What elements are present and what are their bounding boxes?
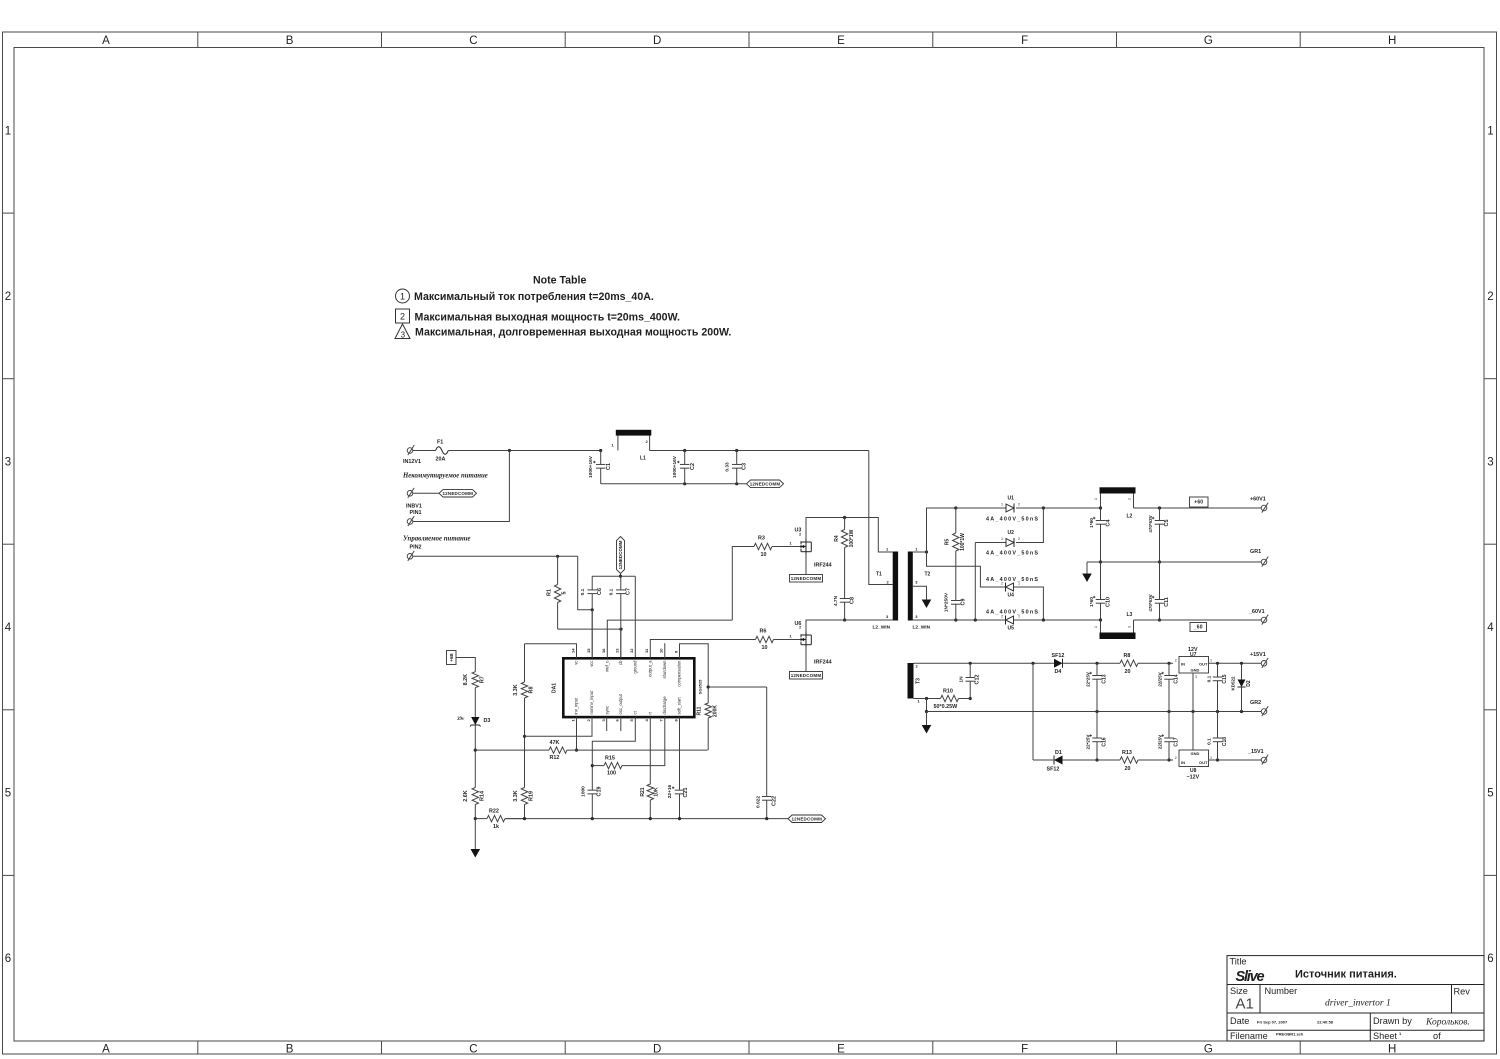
- ground arrow at GR1: [1086, 562, 1088, 574]
- svg-text:50*0.25W: 50*0.25W: [934, 704, 959, 710]
- svg-text:R8: R8: [1124, 653, 1131, 659]
- capacitor C2: [684, 451, 686, 465]
- secondary bottom rail: [913, 619, 1006, 621]
- capacitor C17: [1168, 712, 1170, 739]
- wire T2 pin1 to rectifier: [913, 551, 927, 553]
- capacitor C1: [599, 449, 602, 452]
- svg-text:GND: GND: [1191, 751, 1200, 756]
- net flag 12NEDCOMM input filter: [747, 480, 784, 488]
- zener diode D3 39V: [471, 717, 479, 725]
- svg-text:20A: 20A: [436, 457, 446, 463]
- svg-text:Некоммутируемое питание: Некоммутируемое питание: [402, 473, 488, 480]
- resistor R19: [521, 788, 527, 805]
- svg-text:PIN1: PIN1: [410, 510, 422, 516]
- svg-text:470*63V: 470*63V: [1148, 515, 1153, 532]
- svg-text:SG3525: SG3525: [698, 679, 703, 694]
- svg-text:cb: cb: [618, 660, 623, 665]
- wire R11 bottom to feedback rail: [707, 718, 709, 750]
- port -15V1: [1261, 757, 1267, 763]
- svg-text:47K: 47K: [550, 740, 560, 746]
- resistor R13: [1120, 757, 1138, 763]
- wire T3 pin1 to R10: [914, 698, 941, 700]
- resistor R5: [954, 506, 957, 509]
- wire R11 junction to C22: [708, 686, 767, 688]
- wire pin16 to R3: [607, 620, 732, 658]
- svg-text:Slive: Slive: [1236, 969, 1265, 985]
- diode U5: [1005, 616, 1007, 625]
- inductor L1: [616, 430, 652, 436]
- svg-text:C2: C2: [690, 463, 696, 470]
- svg-text:R11: R11: [697, 706, 703, 715]
- svg-text:F: F: [1021, 1044, 1028, 1056]
- svg-text:4A_400V_50nS: 4A_400V_50nS: [986, 551, 1038, 557]
- svg-text:22*25V: 22*25V: [1086, 672, 1091, 687]
- svg-text:0.1: 0.1: [1207, 675, 1213, 682]
- svg-text:Note Table: Note Table: [533, 275, 586, 287]
- svg-text:1: 1: [1210, 756, 1212, 760]
- svg-text:IN: IN: [1181, 760, 1185, 765]
- svg-text:4A_400V_50nS: 4A_400V_50nS: [986, 610, 1038, 616]
- capacitor C19: [588, 789, 598, 791]
- diode D2 KD522: [1241, 663, 1243, 679]
- resistor R22: [475, 818, 487, 820]
- svg-text:1000: 1000: [581, 786, 587, 797]
- svg-text:1: 1: [400, 291, 405, 301]
- svg-text:PREOBR1.sch: PREOBR1.sch: [1276, 1032, 1304, 1037]
- svg-text:22*25V: 22*25V: [1086, 735, 1091, 750]
- svg-text:1000+16V: 1000+16V: [672, 455, 678, 478]
- svg-text:1: 1: [5, 125, 11, 137]
- svg-text:−12V: −12V: [1187, 775, 1200, 781]
- svg-text:1: 1: [1001, 503, 1003, 507]
- svg-text:R5: R5: [945, 539, 951, 546]
- transformer T2 secondary bar: [908, 552, 913, 621]
- wire pin8 to C21: [679, 717, 681, 790]
- wire D3 to node: [474, 725, 476, 750]
- svg-text:100*1W: 100*1W: [849, 529, 855, 547]
- svg-text:Title: Title: [1230, 957, 1247, 967]
- svg-text:39v: 39v: [456, 717, 465, 722]
- svg-text:20: 20: [1125, 669, 1131, 675]
- transformer T3 bar: [908, 663, 914, 699]
- svg-text:20: 20: [1125, 766, 1131, 772]
- wire 12V rail down to T1 center tap pin2: [869, 451, 893, 585]
- resistor R1: [557, 556, 559, 584]
- wire R1 bottom to pin13 node: [558, 628, 621, 630]
- wire pin14 to R8 top: [525, 644, 577, 659]
- svg-text:IN: IN: [1181, 661, 1185, 666]
- capacitor C10: [1100, 562, 1102, 600]
- wire ground node to pin12: [634, 576, 636, 658]
- svg-text:1N: 1N: [959, 676, 965, 683]
- svg-text:R21: R21: [640, 787, 646, 796]
- svg-text:output_a: output_a: [648, 660, 653, 677]
- svg-text:2: 2: [1175, 659, 1177, 663]
- wire flag to ground node: [620, 574, 622, 577]
- svg-text:U7: U7: [1190, 652, 1197, 658]
- svg-text:C18: C18: [1222, 737, 1228, 746]
- capacitor C14: [1168, 663, 1170, 675]
- resistor R21: [647, 784, 653, 800]
- svg-text:GR2: GR2: [1250, 700, 1261, 706]
- svg-text:Filename: Filename: [1230, 1031, 1268, 1041]
- svg-text:16: 16: [601, 648, 606, 653]
- svg-text:L2_WIN: L2_WIN: [873, 625, 891, 631]
- top rail after L1: [650, 450, 869, 452]
- node junction top rail / PIN1 branch: [508, 449, 511, 452]
- svg-text:2: 2: [1018, 503, 1020, 507]
- svg-text:C1: C1: [606, 463, 612, 470]
- regulator U8 -12V: [1179, 750, 1209, 767]
- svg-text:R10: R10: [943, 689, 953, 695]
- svg-text:PIN2: PIN2: [410, 545, 422, 551]
- wire U7 GND down: [1192, 673, 1194, 750]
- svg-text:Date: Date: [1230, 1016, 1249, 1026]
- svg-text:13: 13: [615, 648, 620, 653]
- capacitor C6: [591, 576, 593, 590]
- boxed net flag 12NEDCOMM at U3 source: [790, 575, 823, 583]
- svg-text:Источник питания.: Источник питания.: [1295, 969, 1397, 981]
- boxed net flag 12NEDCOMM at U6 source: [790, 672, 823, 680]
- svg-text:R3: R3: [758, 536, 765, 542]
- svg-text:4: 4: [1487, 622, 1494, 634]
- svg-text:3.3K: 3.3K: [513, 684, 519, 695]
- capacitor C13: [1096, 663, 1098, 675]
- svg-text:_15V1: _15V1: [1247, 749, 1264, 755]
- svg-text:2: 2: [1175, 756, 1177, 760]
- svg-text:10: 10: [659, 648, 664, 653]
- wire U3 drain to T1 pin1: [806, 518, 893, 553]
- svg-text:Sheet: Sheet: [1373, 1031, 1397, 1041]
- svg-text:C19: C19: [597, 787, 603, 797]
- resistor R6: [756, 636, 774, 642]
- wire T3 common to GR2 rail: [926, 699, 928, 712]
- svg-text:U5: U5: [1008, 626, 1015, 632]
- svg-text:1N*250V: 1N*250V: [944, 592, 950, 612]
- inductor L3: [1100, 633, 1136, 640]
- svg-text:12NEDCOMM: 12NEDCOMM: [791, 816, 822, 821]
- capacitor C5: [1159, 508, 1161, 521]
- svg-text:C13: C13: [1102, 674, 1108, 683]
- svg-text:T2: T2: [925, 572, 931, 578]
- svg-text:22/25V: 22/25V: [1158, 672, 1163, 686]
- svg-text:4.7N: 4.7N: [833, 595, 839, 606]
- wire R14 to ground rail: [474, 805, 476, 819]
- resistor R11: [705, 703, 711, 718]
- svg-text:A1: A1: [1236, 996, 1254, 1013]
- wire U6 drain to T1 pin3: [806, 620, 893, 632]
- wire T2 pin1 to U4 branch: [927, 552, 1006, 587]
- svg-text:R7: R7: [480, 676, 486, 683]
- svg-text:C12: C12: [975, 675, 981, 685]
- svg-text:R15: R15: [605, 756, 615, 762]
- svg-text:12: 12: [629, 648, 634, 653]
- svg-text:10: 10: [762, 645, 768, 651]
- ground arrow at T2: [922, 600, 932, 609]
- svg-text:E: E: [837, 1044, 845, 1056]
- svg-text:U2: U2: [1008, 530, 1015, 536]
- net flag 12NEDCOMM at IC ground rail: [788, 815, 826, 823]
- svg-text:5: 5: [1487, 788, 1493, 800]
- svg-text:0.022: 0.022: [756, 796, 762, 808]
- svg-text:H: H: [1388, 1044, 1396, 1056]
- svg-text:22+16: 22+16: [667, 784, 673, 798]
- port GR1: [1261, 559, 1267, 565]
- note marker 3: [395, 324, 410, 339]
- wire port to fuse: [413, 450, 436, 452]
- svg-text:470*63V: 470*63V: [1148, 594, 1153, 611]
- net flag 12NEDCOMM at INBV1: [439, 490, 477, 497]
- wire pin13 stub: [620, 629, 622, 658]
- diode U1: [956, 507, 1006, 509]
- resistor R14: [474, 750, 476, 787]
- resistor R10: [941, 695, 959, 701]
- svg-text:discharge: discharge: [662, 696, 667, 715]
- svg-text:C14: C14: [1174, 674, 1180, 683]
- svg-text:3: 3: [401, 331, 406, 340]
- svg-text:8.2K: 8.2K: [463, 674, 469, 685]
- svg-text:+60V1: +60V1: [1250, 497, 1266, 503]
- svg-text:G: G: [1204, 1044, 1213, 1056]
- inductor L2: [1100, 487, 1136, 493]
- svg-text:3.3K: 3.3K: [513, 790, 519, 801]
- svg-text:C8: C8: [850, 597, 856, 604]
- svg-text:E: E: [837, 35, 845, 47]
- svg-text:1: 1: [1210, 659, 1212, 663]
- svg-text:10: 10: [761, 552, 767, 558]
- port IN12V1: [407, 448, 413, 454]
- svg-text:3: 3: [1195, 675, 1197, 679]
- svg-text:0.33: 0.33: [725, 462, 731, 472]
- port GR2: [1261, 709, 1267, 715]
- diode U2: [974, 543, 976, 621]
- svg-text:C5: C5: [1164, 520, 1170, 527]
- IC top pin numbers: [570, 648, 678, 653]
- svg-text:Size: Size: [1230, 986, 1248, 996]
- svg-text:12NEDCOMM: 12NEDCOMM: [791, 576, 822, 581]
- svg-text:15: 15: [586, 648, 591, 653]
- GR2 mid rail: [927, 711, 1262, 713]
- svg-text:22/25V: 22/25V: [1158, 735, 1163, 749]
- wire D1 branch: [1033, 759, 1054, 761]
- wire T3 pin2 rail to D4: [914, 662, 1055, 664]
- svg-text:of: of: [1433, 1031, 1441, 1041]
- port PIN1: [407, 519, 413, 525]
- svg-text:shutdown: shutdown: [662, 660, 667, 679]
- svg-text:_60V1: _60V1: [1248, 609, 1265, 615]
- svg-text:12NEDCOMM: 12NEDCOMM: [791, 673, 822, 678]
- svg-text:R19: R19: [529, 791, 535, 801]
- svg-text:22:40:58: 22:40:58: [1317, 1020, 1334, 1025]
- svg-text:5: 5: [5, 788, 11, 800]
- svg-text:2: 2: [1128, 498, 1132, 500]
- svg-text:GR1: GR1: [1250, 549, 1261, 555]
- svg-text:1k: 1k: [493, 824, 499, 830]
- net flag 12NEDCOMM vertical at IC: [617, 537, 625, 574]
- svg-text:1000+16V: 1000+16V: [588, 455, 594, 478]
- svg-text:_60: _60: [1193, 625, 1203, 631]
- svg-text:Корольков.: Корольков.: [1425, 1018, 1470, 1028]
- svg-text:4A_400V_50nS: 4A_400V_50nS: [986, 517, 1038, 523]
- wire INBV1 to net flag: [413, 492, 439, 494]
- svg-text:1: 1: [1094, 626, 1098, 628]
- svg-text:C21: C21: [683, 788, 689, 798]
- wire pin15 stub: [591, 610, 593, 659]
- port PIN2: [407, 554, 413, 560]
- svg-text:KD522: KD522: [1231, 676, 1236, 691]
- svg-text:5: 5: [562, 592, 568, 595]
- wire U7 out to +15V1: [1209, 662, 1262, 664]
- diode U4: [1005, 583, 1007, 592]
- svg-text:L3: L3: [1127, 612, 1133, 618]
- svg-text:D2: D2: [1246, 680, 1252, 687]
- wire U8 out to -15V1: [1209, 759, 1262, 761]
- svg-text:C22: C22: [772, 796, 778, 806]
- -60V rail: [1134, 619, 1262, 621]
- svg-text:F: F: [1021, 35, 1028, 47]
- resistor R8 aux: [1120, 660, 1138, 666]
- svg-text:Максимальная выходная мощность: Максимальная выходная мощность t=20ms_40…: [415, 311, 680, 323]
- svg-text:A: A: [102, 1044, 110, 1056]
- svg-text:T1: T1: [876, 572, 882, 578]
- feedback rail R12 to R11: [475, 749, 549, 751]
- IC ground rail: [505, 818, 788, 820]
- svg-text:2: 2: [1487, 291, 1493, 303]
- svg-text:4A_400V_50nS: 4A_400V_50nS: [986, 577, 1038, 583]
- svg-text:D: D: [653, 35, 661, 47]
- svg-text:soft_start: soft_start: [677, 696, 682, 714]
- svg-text:R6: R6: [760, 629, 767, 635]
- svg-text:0.1: 0.1: [1207, 738, 1213, 745]
- svg-text:SF12: SF12: [1047, 767, 1060, 773]
- wire pin5 to Ct node: [592, 717, 635, 790]
- wire pin1 down to feedback rail: [576, 717, 578, 750]
- resistor R12: [549, 747, 567, 753]
- port -60V1: [1261, 617, 1267, 623]
- wire R8 to R19 with pin2 tap: [524, 698, 526, 788]
- capacitor C16: [1096, 712, 1098, 739]
- svg-text:C9: C9: [961, 599, 967, 606]
- svg-text:R12: R12: [550, 755, 560, 761]
- resistor R8: [524, 644, 526, 682]
- svg-text:vcc: vcc: [589, 661, 594, 667]
- svg-text:G: G: [1204, 35, 1213, 47]
- svg-text:C10: C10: [1106, 597, 1112, 607]
- svg-text:10K: 10K: [654, 787, 660, 797]
- wire T2 pin3 to ground arrow: [913, 586, 927, 599]
- svg-text:1: 1: [1001, 537, 1003, 541]
- svg-text:C17: C17: [1174, 737, 1180, 746]
- svg-text:D1: D1: [1055, 750, 1062, 756]
- wire pin3 stub: [606, 717, 608, 731]
- resistor R7: [472, 672, 478, 688]
- svg-text:12NEDCOMM: 12NEDCOMM: [618, 540, 623, 569]
- svg-text:C6: C6: [597, 588, 603, 595]
- wire T2 pin1 up to +rail: [927, 508, 956, 552]
- svg-text:12NEDCOMM: 12NEDCOMM: [442, 491, 473, 496]
- svg-text:1*60: 1*60: [1089, 597, 1095, 607]
- wire U6 source to flag: [805, 648, 807, 672]
- resistor R3: [732, 547, 754, 621]
- svg-text:osc_output: osc_output: [618, 693, 623, 714]
- resistor R4: [844, 518, 846, 530]
- svg-text:R14: R14: [480, 791, 486, 801]
- wire pin2 to R8/R19 node: [525, 717, 593, 736]
- power flag +6B: [447, 651, 457, 665]
- power flag +60: [1190, 497, 1209, 507]
- svg-text:100: 100: [607, 771, 616, 777]
- svg-text:+6B: +6B: [449, 653, 454, 662]
- svg-text:200K: 200K: [713, 705, 719, 717]
- svg-text:C16: C16: [1102, 737, 1108, 746]
- svg-text:U1: U1: [1008, 496, 1015, 502]
- svg-text:DA1: DA1: [552, 683, 558, 693]
- port +60V1: [1261, 505, 1267, 511]
- capacitor C9: [951, 600, 961, 602]
- ground arrow at T3: [926, 712, 928, 726]
- capacitor C21: [675, 789, 685, 791]
- capacitor C7: [620, 576, 622, 590]
- svg-text:B: B: [286, 1044, 294, 1056]
- wire PIN1 to top rail: [413, 451, 510, 522]
- wire pin6 stub: [620, 717, 622, 731]
- capacitor C18: [1217, 712, 1219, 739]
- svg-text:2.6K: 2.6K: [463, 790, 469, 801]
- diode D1 SF12: [1053, 756, 1055, 765]
- svg-text:sync: sync: [605, 706, 610, 715]
- svg-text:Максимальная, долговременная в: Максимальная, долговременная выходная мо…: [415, 326, 731, 338]
- resistor R15: [592, 765, 604, 767]
- ground arrow lower left: [474, 819, 476, 849]
- diode D4 SF12: [1054, 659, 1063, 668]
- svg-text:C: C: [469, 1044, 477, 1056]
- svg-text:Drawn by: Drawn by: [1373, 1016, 1412, 1026]
- wire pin10 stub: [664, 643, 666, 658]
- wire +6B to R7: [456, 658, 475, 672]
- transformer T1 primary bar: [893, 552, 898, 621]
- svg-text:14: 14: [570, 648, 575, 653]
- wire R7 to D3: [474, 688, 476, 717]
- svg-text:R13: R13: [1122, 750, 1132, 756]
- svg-text:C11: C11: [1164, 597, 1170, 607]
- wire pin9 to R11: [680, 644, 709, 703]
- svg-text:2: 2: [1018, 537, 1020, 541]
- svg-text:R4: R4: [834, 535, 840, 542]
- svg-text:6: 6: [5, 953, 11, 965]
- svg-text:L2_WIN: L2_WIN: [913, 625, 931, 631]
- wire pin11 to R6: [650, 640, 755, 659]
- ground rail GR1: [1087, 561, 1261, 563]
- svg-text:2: 2: [400, 312, 405, 322]
- svg-text:D3: D3: [484, 718, 491, 724]
- svg-text:R8: R8: [529, 687, 535, 694]
- svg-text:vc: vc: [574, 661, 579, 665]
- svg-text:IN12V1: IN12V1: [403, 459, 421, 465]
- bottom rail of input filter: [601, 483, 747, 485]
- svg-text:6: 6: [1487, 953, 1493, 965]
- note marker 2: [396, 309, 410, 323]
- svg-text:INBV1: INBV1: [406, 504, 422, 510]
- capacitor C11: [1159, 562, 1161, 600]
- regulator U7 12V: [1179, 657, 1209, 674]
- capacitor C4: [1100, 508, 1102, 521]
- fuse F1: [436, 447, 449, 455]
- svg-text:Максимальный ток потребления t: Максимальный ток потребления t=20ms_40A.: [414, 291, 654, 303]
- wire pin4 to R21: [649, 717, 651, 784]
- svg-text:OUT: OUT: [1199, 661, 1208, 666]
- svg-text:inv_input: inv_input: [574, 697, 579, 715]
- svg-text:IRF244: IRF244: [814, 563, 832, 569]
